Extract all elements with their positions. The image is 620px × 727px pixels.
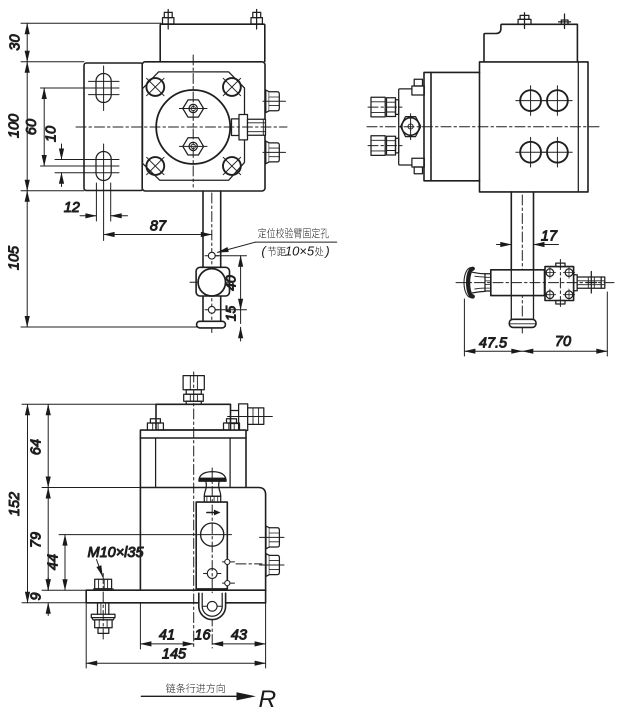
bottom view: flange plate <box>140 430 246 438</box>
side view: barrel section <box>431 72 480 180</box>
bottom view: vent fitting <box>183 376 204 405</box>
side view: rod centerline <box>521 195 523 333</box>
dimensions 41 16 43 <box>140 603 265 668</box>
dimension 10 <box>44 126 62 187</box>
svg-text:44: 44 <box>46 554 62 570</box>
dimension 105 <box>7 191 28 327</box>
svg-text:30: 30 <box>8 34 24 50</box>
dimension 12 <box>64 183 128 221</box>
side view: main centerline <box>367 126 601 128</box>
bottom view: fitting centerline <box>193 372 195 648</box>
front view: corner bolt circle top-right <box>223 78 241 96</box>
front view: horizontal centerline <box>76 126 287 128</box>
front view: slotted hole upper <box>41 66 120 111</box>
chain direction text <box>166 684 225 694</box>
side view: bracket bolt top <box>412 79 424 95</box>
front view: slotted hole lower <box>41 144 120 183</box>
bottom view: clevis link <box>199 593 226 619</box>
side view: four bolt circles <box>516 86 546 116</box>
leader note: positioning arm fixing hole <box>218 242 337 252</box>
dimension 100 <box>7 62 28 191</box>
side view: hex fitting pair upper <box>368 97 402 117</box>
side view: hex valve <box>401 114 421 140</box>
bottom view: valve big port circle <box>201 523 224 546</box>
bottom view: valve detent upper <box>223 559 235 564</box>
front view: corner bolt circle top-left <box>146 78 164 96</box>
bottom view: plate extension lines left <box>22 590 86 603</box>
dimension 44 <box>46 535 66 591</box>
svg-text:64: 64 <box>29 439 45 455</box>
front view: right port fitting upper <box>263 90 286 113</box>
svg-text:47.5: 47.5 <box>479 335 508 351</box>
dimension 17 <box>497 229 559 245</box>
letter R <box>259 686 277 713</box>
side view: cross bar body <box>491 270 545 296</box>
extension line at body bottom <box>21 190 84 192</box>
side view: knob thread collar <box>485 274 491 291</box>
bottom view: M10 bolt <box>91 574 115 640</box>
extension line at body top <box>21 61 84 63</box>
svg-text:9: 9 <box>29 592 45 600</box>
front view: right port fitting lower <box>263 141 286 164</box>
front view: corner bolt circle bottom-left <box>146 157 164 175</box>
front view: main body <box>142 62 265 191</box>
side view: bracket bolt bottom <box>412 158 424 174</box>
bottom view: right elbow fitting <box>228 404 273 431</box>
dimension 47.5 and 70 <box>464 292 607 356</box>
dimension 30 <box>8 23 28 62</box>
svg-text:10×5: 10×5 <box>285 243 315 258</box>
svg-text:145: 145 <box>162 647 187 663</box>
svg-text:M10×l35: M10×l35 <box>88 545 145 561</box>
side view: stepped top cover <box>484 24 577 62</box>
svg-text:100: 100 <box>7 114 23 138</box>
dimension 60 <box>24 88 44 166</box>
bottom view: valve centerline <box>211 468 213 648</box>
side view: cross plate <box>545 263 574 304</box>
bottom view: valve flow arrow <box>207 510 221 516</box>
front view: rod hole lower <box>205 306 219 313</box>
front view: rod centerline <box>211 193 213 335</box>
svg-text:12: 12 <box>64 200 80 216</box>
side view: cross plate centerline <box>559 260 561 308</box>
chain direction arrow <box>141 692 256 700</box>
svg-text:105: 105 <box>7 245 23 270</box>
bottom view: main lower body <box>140 488 265 591</box>
front view: left mounting plate <box>84 63 143 191</box>
side view: cross plate screws <box>544 267 555 278</box>
note text line 1 <box>258 228 329 238</box>
bottom view: knob <box>199 472 226 497</box>
extension line head top <box>22 403 156 405</box>
side view: main block <box>480 62 589 192</box>
svg-text:70: 70 <box>555 334 571 350</box>
svg-text:40: 40 <box>223 275 239 291</box>
side view: rod through bar <box>511 270 533 320</box>
extension line top <box>21 22 161 24</box>
front view: rod hole upper <box>205 252 219 259</box>
bottom view: base plate <box>86 590 265 603</box>
side view: cross assembly centerline <box>456 282 614 284</box>
bottom view: valve detent lower <box>223 581 235 586</box>
svg-text:R: R <box>259 686 277 713</box>
dimension 79 <box>29 488 49 591</box>
front view: top cover block <box>160 24 265 61</box>
svg-text:43: 43 <box>231 628 247 644</box>
dimension 145 <box>86 603 265 668</box>
dimension 87 <box>104 183 212 241</box>
svg-text:87: 87 <box>150 219 167 235</box>
dimension 64 <box>29 404 49 487</box>
svg-text:10: 10 <box>44 126 60 142</box>
bottom view: head block <box>156 404 231 430</box>
extension line valve center <box>59 534 232 536</box>
svg-text:15: 15 <box>223 306 239 322</box>
bottom view: right fitting upper <box>260 526 285 549</box>
bottom view: flange small bolt left <box>147 419 163 430</box>
side view: flange plate <box>424 72 431 180</box>
extension line at rod end <box>21 326 197 328</box>
front view: guide block <box>190 267 233 296</box>
dimension 152 <box>7 404 28 603</box>
side view: top bolt <box>518 13 531 29</box>
bottom view: valve small port circle <box>204 569 221 579</box>
side view: hex fitting pair lower <box>368 136 402 156</box>
svg-text:60: 60 <box>24 119 40 135</box>
extension line body top <box>42 487 140 489</box>
bottom view: barrel section <box>140 438 246 488</box>
front view: rod end cap <box>197 321 226 328</box>
svg-text:152: 152 <box>7 492 23 516</box>
front view: top bolt left <box>163 10 174 30</box>
bottom view: right fitting lower <box>260 554 285 577</box>
svg-text:41: 41 <box>159 628 175 644</box>
front view: vertical centerline <box>192 55 194 187</box>
front view: corner bolt circle bottom-right <box>223 157 241 175</box>
front view: side shaft fitting <box>232 115 266 140</box>
front view: top bolt right <box>251 10 262 30</box>
side view: rod end cap <box>509 319 536 327</box>
side view: right stud <box>574 275 605 291</box>
bottom view: detent link centerline <box>236 563 262 565</box>
front view: lower rod <box>203 191 221 322</box>
dimension 40 <box>215 256 247 310</box>
side view: knob bell cap <box>464 268 485 298</box>
svg-text:17: 17 <box>541 229 558 245</box>
svg-text:16: 16 <box>194 628 211 644</box>
front view: inner plate with chamfered corners <box>143 72 245 180</box>
dimension 9 <box>29 578 49 616</box>
side view: stud pin <box>587 272 597 294</box>
bottom view: valve body <box>196 502 227 589</box>
side view: top pin bolt <box>559 14 571 29</box>
bottom view: knob thread collar <box>204 496 220 502</box>
dimension 15 <box>223 306 241 341</box>
side view: bracket <box>399 89 412 165</box>
side view: down rod <box>511 192 533 271</box>
front view: big bore circle <box>156 90 230 164</box>
svg-text:79: 79 <box>29 532 45 548</box>
leader note M10 bolt <box>88 545 145 577</box>
front view: hex plug lower <box>179 138 207 155</box>
front view: hex plug upper <box>179 100 207 117</box>
note text line 2 <box>261 243 329 258</box>
bottom view: flange small bolt right <box>224 419 240 430</box>
